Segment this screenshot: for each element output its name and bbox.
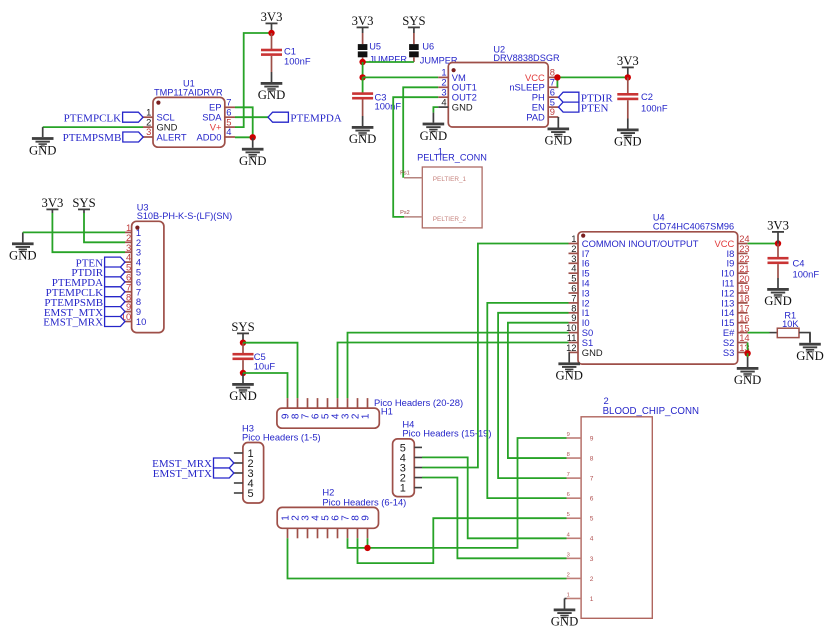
net label PTEN at U3 (76, 257, 125, 269)
ground under U1 ADD0 (239, 138, 267, 168)
svg-text:10: 10 (136, 316, 146, 327)
jumper U6 (409, 42, 458, 66)
wire to U2 pin1 VM (363, 76, 439, 78)
svg-text:10uF: 10uF (254, 360, 276, 371)
net label EMST_MRX at U3 (43, 317, 125, 329)
junction S2 S3 (744, 350, 750, 356)
wire H2 pin8 to blood pin5 (358, 518, 567, 563)
power 3V3 right of U2 (617, 54, 639, 77)
svg-text:PTEMPSMB: PTEMPSMB (63, 132, 122, 144)
wire blood pin1 to ground (565, 598, 567, 600)
svg-text:U6: U6 (422, 42, 434, 52)
svg-text:100nF: 100nF (641, 102, 668, 113)
svg-text:10K: 10K (782, 319, 799, 329)
svg-text:6: 6 (590, 496, 594, 503)
svg-text:4: 4 (441, 96, 446, 107)
wire U5 down to VM branch (362, 62, 364, 77)
ground left of U3 (9, 232, 37, 262)
svg-text:3V3: 3V3 (261, 10, 283, 24)
wire U2 PAD pin9 to ground (557, 117, 559, 118)
ground under C3 (349, 116, 377, 146)
svg-text:PTEN: PTEN (581, 102, 609, 114)
svg-text:100nF: 100nF (284, 56, 311, 67)
wire OUT1 to PELTIER_1 (403, 87, 438, 177)
svg-text:3: 3 (590, 556, 594, 563)
svg-text:8: 8 (590, 455, 594, 462)
svg-text:GND: GND (545, 134, 573, 148)
svg-text:2: 2 (590, 576, 594, 583)
net label EMST_MTX at U3 (44, 307, 125, 319)
wire H4 pin4 to blood pin4 (422, 457, 567, 538)
op-amp U1 TMP117AIDRVR (143, 79, 235, 148)
svg-text:5: 5 (590, 516, 594, 523)
svg-text:7: 7 (567, 472, 570, 478)
net label PTEMPSMB at U3 (44, 297, 125, 309)
junction SYS C5 (240, 340, 246, 346)
capacitor C5 (233, 343, 276, 373)
connector BLOOD_CHIP_CONN (567, 395, 699, 618)
wire H2 pin7 to blood pin9 (348, 438, 567, 548)
net label PTEMPDA (268, 112, 342, 124)
svg-text:9: 9 (550, 106, 555, 117)
ground near U1 (29, 127, 57, 157)
jumper U5 lead bottom (362, 57, 364, 62)
wire U4 S2 to S3 (747, 343, 749, 354)
svg-text:4: 4 (590, 536, 594, 543)
connector H4 Pico Headers (15-19) (393, 418, 492, 496)
wire H2 pin1 to blood pin2 (288, 538, 567, 578)
net label PTEMPCLK at U3 (46, 287, 125, 299)
ground right of R1 (796, 333, 824, 363)
wire GND to U1 pin2 (43, 126, 143, 128)
junction C5 ground (240, 370, 246, 376)
ground under blood pin1 (551, 599, 579, 629)
svg-text:H1: H1 (381, 406, 393, 417)
svg-text:3V3: 3V3 (352, 14, 374, 28)
svg-text:GND: GND (452, 102, 473, 113)
svg-text:CD74HC4067SM96: CD74HC4067SM96 (653, 222, 734, 232)
wire U4 VCC to 3V3 (748, 243, 778, 245)
svg-text:GND: GND (349, 132, 377, 146)
ground under C2 (614, 119, 642, 149)
resistor R1 10K (770, 310, 811, 342)
net label PTEN (559, 102, 609, 114)
svg-text:12: 12 (566, 342, 576, 353)
power 3V3 above U5 (352, 14, 374, 33)
svg-text:2: 2 (567, 572, 570, 578)
jumper U5 (358, 41, 408, 64)
svg-text:S10B-PH-K-S-(LF)(SN): S10B-PH-K-S-(LF)(SN) (137, 211, 232, 221)
svg-text:3V3: 3V3 (617, 54, 639, 68)
wire C5 to H1 pin9 (243, 373, 288, 398)
svg-text:ADD0: ADD0 (196, 131, 221, 142)
wire U4 E# to R1 (748, 332, 770, 334)
wire U4 I2 to blood pin6 (487, 303, 568, 498)
svg-text:GND: GND (614, 135, 642, 149)
svg-text:GND: GND (582, 347, 603, 358)
wire S3 to ground (747, 353, 749, 357)
svg-text:4: 4 (226, 126, 231, 137)
svg-text:U5: U5 (369, 41, 381, 51)
power SYS above U6 (402, 14, 425, 33)
svg-text:8: 8 (567, 452, 570, 458)
svg-text:100nF: 100nF (793, 269, 820, 280)
IC U4 CD74HC4067SM96 (566, 212, 750, 364)
net label EMST_MRX at H3 (152, 458, 234, 470)
capacitor C1 (261, 33, 311, 72)
connector H1 Pico Headers (20-28) (277, 397, 463, 428)
wire SYS to H1 pin8 (243, 343, 298, 398)
svg-text:PELTIER_1: PELTIER_1 (433, 176, 467, 183)
wire H2 pin9 junction (367, 538, 369, 548)
wire U1 pin4 ADD0 (235, 136, 253, 138)
svg-text:GND: GND (551, 615, 579, 629)
svg-text:3V3: 3V3 (41, 196, 63, 210)
wire U4 pin12 GND (568, 351, 571, 353)
svg-text:SYS: SYS (72, 196, 95, 210)
IC U2 DRV8838DSGR (438, 45, 560, 128)
wire 3V3 net to U1 pin5 V+ (235, 33, 272, 127)
net label PTDIR (559, 92, 614, 104)
junction U4 3V3 (775, 240, 781, 246)
junction VM branch (359, 74, 365, 80)
capacitor C4 (768, 244, 820, 280)
ground under C5 (229, 373, 257, 403)
svg-text:GND: GND (796, 349, 824, 363)
svg-text:PAD: PAD (526, 111, 545, 122)
svg-text:2: 2 (604, 395, 609, 406)
power 3V3 right of U4 (767, 219, 789, 244)
svg-text:PELTIER_CONN: PELTIER_CONN (417, 153, 487, 163)
jumper U6 lead top (413, 33, 415, 44)
svg-text:S3: S3 (723, 347, 734, 358)
svg-text:EMST_MTX: EMST_MTX (153, 468, 212, 480)
connector PELTIER_CONN (400, 147, 487, 228)
svg-text:PELTIER_2: PELTIER_2 (433, 216, 467, 223)
wire U1 pin6 SDA to PTEMPDA (235, 116, 268, 118)
svg-text:COMMON INOUT/OUTPUT: COMMON INOUT/OUTPUT (582, 238, 699, 249)
junction U5 bottom (359, 59, 365, 65)
wire OUT2 to PELTIER_2 (393, 97, 438, 217)
svg-text:7: 7 (590, 476, 594, 483)
net label PTEMPDA at U3 (52, 277, 125, 289)
svg-text:Ps1: Ps1 (400, 171, 410, 177)
capacitor C2 (617, 77, 668, 118)
svg-text:DRV8838DSGR: DRV8838DSGR (493, 53, 560, 63)
svg-text:ALERT: ALERT (157, 131, 187, 142)
svg-text:GND: GND (29, 143, 57, 157)
svg-text:Ps2: Ps2 (400, 210, 410, 216)
svg-text:GND: GND (555, 369, 583, 383)
wire H1 pin4 to U4 S1 (338, 343, 569, 399)
wire U4 I0 to blood pin8 (508, 323, 569, 458)
connector U3 S10B-PH-K-S-(LF)(SN) (121, 203, 232, 333)
svg-text:9: 9 (590, 435, 594, 442)
svg-text:6: 6 (567, 492, 570, 498)
ground under U4 pin12 (555, 352, 583, 382)
net label PTEMPCLK (64, 112, 143, 124)
wire U2 GND pin4 (433, 107, 438, 113)
svg-text:1: 1 (361, 413, 372, 419)
wire ground to U3 pin1 (23, 231, 125, 233)
svg-text:100nF: 100nF (375, 101, 402, 112)
svg-text:PTEMPCLK: PTEMPCLK (64, 112, 122, 124)
wire U6 to U5 bottom (363, 61, 414, 63)
svg-text:GND: GND (239, 154, 267, 168)
svg-text:GND: GND (734, 373, 762, 387)
svg-text:C2: C2 (641, 91, 653, 102)
svg-text:C4: C4 (793, 258, 805, 269)
connector H3 Pico Headers (1-5) (234, 423, 321, 503)
svg-text:3V3: 3V3 (767, 219, 789, 233)
svg-text:SYS: SYS (231, 320, 254, 334)
junction EP-ADD0 (250, 134, 256, 140)
junction 3V3 C2 (625, 74, 631, 80)
power 3V3 above C1 (261, 10, 283, 33)
wire U4 I1 to blood pin7 (498, 313, 568, 478)
svg-text:9: 9 (567, 432, 570, 438)
svg-text:SYS: SYS (402, 14, 425, 28)
svg-text:Pico Headers (1-5): Pico Headers (1-5) (242, 432, 321, 443)
wire H4 pin2 to blood pin3 (422, 478, 567, 559)
wire VCC to 3V3 (557, 76, 627, 78)
wire 3V3 to U3 pin3 (52, 213, 125, 252)
junction U2 VCC (554, 74, 560, 80)
junction H2 pin7 pin9 (364, 545, 370, 551)
ground under C4 (764, 278, 792, 308)
svg-text:PTEMPDA: PTEMPDA (290, 112, 341, 124)
svg-text:3: 3 (567, 552, 570, 558)
ground under C1 (258, 72, 286, 102)
wire SYS to U3 pin2 (84, 213, 125, 242)
svg-text:1: 1 (567, 592, 570, 598)
wire nSLEEP to VCC (556, 77, 558, 87)
svg-text:GND: GND (764, 294, 792, 308)
svg-text:1: 1 (590, 596, 594, 603)
jumper U5 lead top (362, 33, 364, 44)
net label PTEMPSMB (63, 132, 144, 144)
ground under U2 pin4 (420, 113, 448, 143)
svg-text:TMP117AIDRVR: TMP117AIDRVR (154, 87, 223, 97)
svg-text:Pico Headers (6-14): Pico Headers (6-14) (322, 496, 406, 507)
jumper U6 lead bottom (413, 57, 415, 62)
capacitor C3 (352, 92, 401, 117)
power 3V3 left of U3 (41, 196, 63, 213)
wire U4 COMMON to H4 pin3 (422, 244, 569, 468)
ground under U2 PAD (545, 118, 573, 148)
power SYS left of U3 (72, 196, 95, 213)
ground under U4 S3 (734, 357, 762, 387)
connector H2 Pico Headers (6-14) (277, 486, 406, 538)
power SYS above C5 (231, 320, 254, 343)
svg-text:5: 5 (248, 488, 254, 500)
svg-text:GND: GND (420, 129, 448, 143)
svg-text:GND: GND (229, 389, 257, 403)
junction 3V3 C1 (268, 30, 274, 36)
svg-text:GND: GND (9, 249, 37, 263)
svg-text:EMST_MRX: EMST_MRX (43, 317, 103, 329)
svg-text:GND: GND (258, 88, 286, 102)
wire VM branch down to C3 (362, 77, 364, 92)
svg-text:1: 1 (400, 483, 406, 495)
svg-text:BLOOD_CHIP_CONN: BLOOD_CHIP_CONN (603, 406, 699, 417)
svg-text:9: 9 (361, 515, 372, 521)
svg-text:3: 3 (146, 126, 151, 137)
net label EMST_MTX at H3 (153, 468, 234, 480)
svg-text:5: 5 (567, 512, 570, 518)
wire U1 pin7 EP down (235, 107, 253, 137)
wire H1 pin3 to U4 S0 (348, 333, 569, 399)
svg-text:JUMPER: JUMPER (369, 55, 407, 65)
net label PTDIR at U3 (71, 267, 125, 279)
